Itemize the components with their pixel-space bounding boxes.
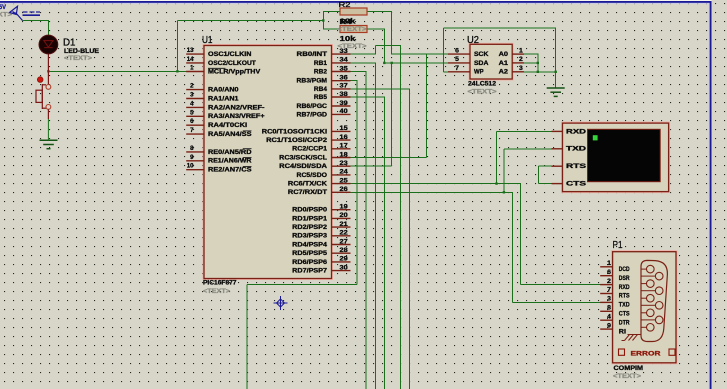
wire SCL bottom row to PIC RC3 pin18 <box>350 157 427 159</box>
wire terminal RXD riser x496 <box>496 131 498 183</box>
pin 17 RC2/CCP1 right <box>332 148 351 150</box>
svg-text:2: 2 <box>190 83 194 90</box>
svg-text:COMPIM: COMPIM <box>614 365 644 372</box>
junction R4-SDA <box>383 62 385 64</box>
svg-text:6: 6 <box>190 118 194 125</box>
svg-text:RI: RI <box>619 328 627 335</box>
svg-text:CTS: CTS <box>566 181 586 188</box>
P1 ERROR indicator right box <box>669 349 675 355</box>
P1 DB9 pin circle R1 <box>655 272 663 280</box>
pin 7 RA5/AN4/SS left <box>186 133 204 135</box>
pin 4 P1 DTR <box>600 319 612 321</box>
svg-text:RD1/PSP1: RD1/PSP1 <box>292 215 327 222</box>
pin 16 RC1/T1OSI/CCP2 right <box>332 139 351 141</box>
wire button to ground <box>47 109 49 119</box>
pin 9 RE1/AN6/WR left <box>186 160 204 162</box>
svg-text:4: 4 <box>607 313 611 320</box>
wire RB3 pin36 row <box>350 80 358 82</box>
svg-text:DCD: DCD <box>619 266 630 273</box>
wire PIC RX pin26 row y192 <box>350 191 513 193</box>
wire R4 right to drop x384 <box>367 28 385 30</box>
svg-text:RC7/RX/DT: RC7/RX/DT <box>288 189 327 196</box>
svg-text:38: 38 <box>340 91 349 98</box>
svg-text:OSC2/CLKOUT: OSC2/CLKOUT <box>208 60 256 67</box>
pin 30 RD7/PSP7 right <box>332 270 351 272</box>
wire R2 drop x391 to SCL row <box>391 12 393 55</box>
pin 6 P1 DSR <box>600 275 612 277</box>
svg-text:MCLR/Vpp/THV: MCLR/Vpp/THV <box>208 68 261 75</box>
wire TX drop x520 to COMPIM RXD <box>519 184 521 285</box>
svg-text:RD3/PSP3: RD3/PSP3 <box>292 233 327 240</box>
wire RB0 long vertical x400 to bottom <box>399 45 401 389</box>
wire +5V battery to LED top (node to x48) <box>23 20 49 22</box>
svg-text:RC6/TX/CK: RC6/TX/CK <box>288 181 328 188</box>
svg-text:A0: A0 <box>499 51 509 58</box>
pin 14 OSC2/CLKOUT left <box>186 62 204 64</box>
svg-text:18: 18 <box>340 151 349 158</box>
svg-text:8: 8 <box>190 145 194 152</box>
svg-text:17: 17 <box>340 143 349 150</box>
svg-text:<TEXT>: <TEXT> <box>64 55 92 62</box>
wire LED drop vertical x48 <box>47 21 49 36</box>
pin 28 RD5/PSP5 right <box>332 252 351 254</box>
wire U2 A0-A2 tie vertical x537 <box>537 54 539 72</box>
svg-text:29: 29 <box>340 256 349 263</box>
svg-text:39: 39 <box>340 100 349 107</box>
svg-text:R2: R2 <box>339 0 351 9</box>
svg-text:24LC512: 24LC512 <box>468 81 497 88</box>
button body <box>36 84 46 109</box>
pin 9 P1 RI <box>600 328 612 330</box>
wire RB1 long vertical x375 to bottom <box>374 63 376 389</box>
svg-text:RD7/PSP7: RD7/PSP7 <box>292 268 327 275</box>
wire COMPIM RXD row y284 <box>520 284 601 286</box>
svg-text:5: 5 <box>190 109 194 116</box>
pin 5 RA3/AN3/VREF+ left <box>186 115 204 117</box>
svg-text:CTS: CTS <box>619 311 630 318</box>
svg-text:RE0/AN5/RD: RE0/AN5/RD <box>208 149 252 156</box>
svg-text:ERROR: ERROR <box>631 350 662 357</box>
svg-text:8: 8 <box>607 305 611 312</box>
pin 34 RB1 right <box>332 62 351 64</box>
P1 DB9 pin circle R4 <box>655 316 663 324</box>
pin 2 U2 A1 <box>512 62 524 64</box>
svg-text:37: 37 <box>340 83 349 90</box>
svg-text:<TEXT>: <TEXT> <box>203 288 230 295</box>
svg-text:3: 3 <box>607 296 611 303</box>
svg-text:RD5/PSP5: RD5/PSP5 <box>292 250 327 257</box>
svg-text:OSC1/CLKIN: OSC1/CLKIN <box>208 51 252 58</box>
svg-text:3: 3 <box>190 92 194 99</box>
pin terminal TXD <box>552 148 563 150</box>
wire RB1 pin34 row <box>350 62 376 64</box>
svg-text:2: 2 <box>519 56 523 63</box>
svg-text:15: 15 <box>340 125 349 132</box>
pin 4 RA2/AN2/VREF- left <box>186 106 204 108</box>
pin 13 OSC1/CLKIN left <box>186 53 204 55</box>
pin 37 RB4 right <box>332 88 351 90</box>
pin 7 U2 WP <box>448 71 470 73</box>
wire U2 A1 row <box>523 62 538 64</box>
wire U2 A0 row <box>523 53 538 55</box>
svg-text:<TEXT>: <TEXT> <box>468 89 497 96</box>
wire RB4 long vertical x409 to bottom <box>409 89 411 389</box>
svg-text:A2: A2 <box>499 69 509 76</box>
svg-text:SDA: SDA <box>474 60 489 67</box>
svg-text:RB1: RB1 <box>314 60 328 67</box>
pin 19 RD0/PSP0 right <box>332 209 351 211</box>
svg-text:22: 22 <box>340 230 349 237</box>
pin 40 RB7/PGD right <box>332 113 351 115</box>
svg-text:RA2/AN2/VREF-: RA2/AN2/VREF- <box>208 104 265 111</box>
svg-text:RXD: RXD <box>566 128 587 135</box>
svg-text:4: 4 <box>190 100 194 107</box>
P1 DB9 pin circle L5 <box>647 324 655 332</box>
svg-text:35: 35 <box>340 65 349 72</box>
virtual terminal body <box>562 122 670 193</box>
junction LED-button-MCLR node <box>47 70 49 72</box>
connector P1 COMPIM body <box>612 251 677 364</box>
button terminal bottom <box>46 105 51 110</box>
P1 DB9 pin circle L3 <box>647 294 655 302</box>
wire SDA drop x391 <box>391 63 393 166</box>
wire terminal CTS row <box>538 183 552 185</box>
wire RB5 long vertical x384 to bottom <box>383 97 385 389</box>
wire pullup rail y20 from MCLR riser to resistor junction <box>177 20 323 22</box>
pin 10 RE2/AN7/CS left <box>186 169 204 171</box>
pin 27 RD4/PSP4 right <box>332 244 351 246</box>
svg-text:RB2: RB2 <box>314 68 328 75</box>
P1 chassis ground <box>622 335 642 341</box>
svg-text:RXD: RXD <box>619 284 630 291</box>
resistor R4 <box>340 26 367 33</box>
wire RB0 riser x375 <box>374 45 376 54</box>
svg-text:TXD: TXD <box>566 146 587 153</box>
svg-text:RC4/SDI/SDA: RC4/SDI/SDA <box>279 163 327 170</box>
button terminal top <box>46 85 51 90</box>
op-amp U1 PIC16F877 body <box>203 45 333 280</box>
svg-text:RA4/T0CKI: RA4/T0CKI <box>208 122 247 129</box>
P1 DB9 pin circle L4 <box>647 309 655 317</box>
svg-text:DSR: DSR <box>619 275 630 282</box>
svg-text:RC2/CCP1: RC2/CCP1 <box>292 146 327 153</box>
pin 6 RA4/T0CKI left <box>186 124 204 126</box>
pin 2 RA0/AN0 left <box>186 89 204 91</box>
svg-text:RA3/AN3/VREF+: RA3/AN3/VREF+ <box>208 113 265 120</box>
svg-text:U1: U1 <box>202 34 213 46</box>
svg-text:27: 27 <box>340 238 349 245</box>
svg-text:RA5/AN4/SS: RA5/AN4/SS <box>208 131 252 138</box>
P1 DB9 pin circle L2 <box>647 280 655 288</box>
wire R4 left stub <box>323 28 340 30</box>
svg-text:34: 34 <box>340 57 349 64</box>
svg-text:6: 6 <box>455 47 459 54</box>
svg-text:7: 7 <box>190 127 194 134</box>
junction TX terminal riser <box>495 182 497 184</box>
junction rail-resistors x323 <box>322 19 324 21</box>
pin terminal RXD <box>552 130 563 132</box>
wire SDA row y63 from R4 drop to U2 SDA <box>384 62 449 64</box>
pin 1 MCLR/Vpp/THV left <box>186 71 204 73</box>
pin 35 RB2 right <box>332 71 351 73</box>
svg-text:RTS: RTS <box>566 163 586 170</box>
svg-text:5: 5 <box>455 56 459 63</box>
svg-text:TXD: TXD <box>619 302 630 309</box>
wire resistor left vertical x323 <box>322 11 324 30</box>
pin 18 RC3/SCK/SCL right <box>332 157 351 159</box>
sheet border right <box>710 1 712 389</box>
button actuator red dot <box>37 77 43 83</box>
wire terminal RTS row <box>538 165 552 167</box>
svg-text:10k: 10k <box>340 34 357 43</box>
wire RB0 over-route y45 <box>375 44 401 46</box>
svg-text:WP: WP <box>474 69 484 76</box>
svg-text:RD2/PSP2: RD2/PSP2 <box>292 224 327 231</box>
pin 8 RE0/AN5/RD left <box>186 151 204 153</box>
wire RB3 vertical x357 <box>356 81 358 285</box>
wire R2 left stub <box>323 11 340 13</box>
svg-text:<TEXT>: <TEXT> <box>338 26 367 33</box>
junction MCLR riser <box>176 70 178 72</box>
wire U2 top rail y28 <box>444 27 557 29</box>
svg-text:10: 10 <box>187 163 194 170</box>
svg-text:LED-BLUE: LED-BLUE <box>64 48 99 55</box>
pin 39 RB6/PGC right <box>332 105 351 107</box>
pin 24 RC5/SDO right <box>332 174 351 176</box>
pin 2 P1 RXD <box>600 284 612 286</box>
svg-text:2: 2 <box>607 278 611 285</box>
pin 22 RD3/PSP3 right <box>332 235 351 237</box>
svg-text:1: 1 <box>607 260 611 267</box>
pin 1 U2 A0 <box>512 53 524 55</box>
pin terminal RTS <box>552 165 563 167</box>
svg-text:9: 9 <box>607 322 611 329</box>
svg-text:26: 26 <box>340 186 349 193</box>
wire RB2 pin35 row <box>350 71 367 73</box>
pin 21 RD2/PSP2 right <box>332 226 351 228</box>
svg-text:24: 24 <box>340 169 349 176</box>
svg-text:PIC16F877: PIC16F877 <box>203 280 237 287</box>
pin 20 RD1/PSP1 right <box>332 217 351 219</box>
pin 36 RB3/PGM right <box>332 80 351 82</box>
svg-text:RC5/SDO: RC5/SDO <box>297 172 328 179</box>
svg-text:+5V: +5V <box>0 4 6 11</box>
power terminal +5V battery top-left <box>10 6 41 20</box>
pin 5 U2 SDA <box>448 62 470 64</box>
svg-text:RB3/PGM: RB3/PGM <box>297 78 327 85</box>
P1 DB9 pin circle R3 <box>655 302 663 310</box>
sheet border top <box>0 0 712 1</box>
wire RB3 vertical x246 to bottom <box>246 284 248 389</box>
pin 15 RC0/T1OSO/T1CKI right <box>332 130 351 132</box>
wire riser x177 rail to MCLR row <box>176 21 178 72</box>
svg-text:<TEXT>: <TEXT> <box>0 12 12 19</box>
svg-text:1: 1 <box>190 65 194 72</box>
wire U2 WP row <box>444 71 449 73</box>
pin 3 RA1/AN1 left <box>186 98 204 100</box>
svg-text:36: 36 <box>340 75 349 82</box>
wire U2 A2 row to gnd rail <box>523 71 556 73</box>
wire PIC TX pin25 row y183 <box>350 183 521 185</box>
junction SDA drop <box>391 62 393 64</box>
wire RB2 long vertical x366 to bottom <box>365 72 367 389</box>
pin 8 P1 CTS <box>600 310 612 312</box>
wire terminal RTS-CTS loop vertical x538 <box>537 166 539 183</box>
wire COMPIM TXD row y302 <box>512 301 601 303</box>
svg-text:RA1/AN1: RA1/AN1 <box>208 95 239 102</box>
wire SCL drop x426 <box>426 54 428 157</box>
P1 DB9 pin circle R2 <box>655 287 663 295</box>
P1 DB9 pin circle L1 <box>647 265 655 273</box>
svg-text:RE1/AN6/WR: RE1/AN6/WR <box>208 158 252 165</box>
svg-text:23: 23 <box>340 160 349 167</box>
svg-text:28: 28 <box>340 247 349 254</box>
pin terminal CTS <box>552 183 563 185</box>
ground U2 address pins <box>547 88 565 96</box>
P1 ERROR indicator left box <box>619 349 625 355</box>
wire SDA bottom row to PIC RC4 pin23 <box>350 165 392 167</box>
wire MCLR row y71 from LED/button node to PIC pin1 <box>48 70 193 72</box>
svg-text:13: 13 <box>187 47 194 54</box>
P1 DB9 shell <box>641 260 667 341</box>
pin 26 RC7/RX/DT right <box>332 191 351 193</box>
pin 1 P1 DCD <box>600 266 612 268</box>
wire RB4 pin37 row <box>350 88 410 90</box>
virtual terminal cursor <box>593 135 598 140</box>
svg-text:20: 20 <box>340 212 349 219</box>
ground below button <box>40 140 58 148</box>
svg-text:DTR: DTR <box>619 319 630 326</box>
svg-text:14: 14 <box>187 56 194 63</box>
wire RX drop x512 to COMPIM TXD <box>511 192 513 302</box>
svg-text:U2: U2 <box>467 34 479 46</box>
svg-text:RD4/PSP4: RD4/PSP4 <box>292 241 327 248</box>
pin 3 U2 A2 <box>512 71 524 73</box>
svg-text:19: 19 <box>340 204 349 211</box>
pin 3 P1 TXD <box>600 301 612 303</box>
svg-text:6: 6 <box>607 269 611 276</box>
svg-text:RB7/PGD: RB7/PGD <box>297 111 328 118</box>
svg-text:RE2/AN7/CS: RE2/AN7/CS <box>208 167 252 174</box>
svg-text:<TEXT>: <TEXT> <box>613 373 641 380</box>
svg-text:RD0/PSP0: RD0/PSP0 <box>292 207 327 214</box>
svg-text:16: 16 <box>340 134 349 141</box>
svg-text:RB4: RB4 <box>314 86 328 93</box>
svg-text:7: 7 <box>607 287 611 294</box>
svg-text:RD6/PSP6: RD6/PSP6 <box>292 259 327 266</box>
wire U2 WP drop x443 <box>443 28 445 72</box>
svg-text:25: 25 <box>340 177 349 184</box>
svg-text:1: 1 <box>519 47 523 54</box>
svg-text:RB6/PGC: RB6/PGC <box>297 103 328 110</box>
wire U2 gnd vertical x555 <box>555 28 557 88</box>
pin 29 RD6/PSP6 right <box>332 261 351 263</box>
svg-text:D1: D1 <box>63 37 76 49</box>
svg-text:RB0/INT: RB0/INT <box>297 51 328 58</box>
svg-text:33: 33 <box>340 48 349 55</box>
junction A1 tie <box>537 62 539 64</box>
svg-text:RA0/AN0: RA0/AN0 <box>208 87 239 94</box>
svg-text:R4: R4 <box>340 17 353 26</box>
wire terminal TXD row <box>504 148 552 150</box>
svg-text:7: 7 <box>455 65 459 72</box>
wire R2 right to drop x391 <box>367 11 392 13</box>
wire terminal TXD riser x503 <box>503 149 505 193</box>
pin 38 RB5 right <box>332 96 351 98</box>
pin 25 RC6/TX/CK right <box>332 183 351 185</box>
IC U2 24LC512 body <box>469 43 513 80</box>
svg-text:9: 9 <box>190 154 194 161</box>
resistor R2 <box>340 8 367 15</box>
svg-text:RTS: RTS <box>619 293 630 300</box>
pin 6 U2 SCK <box>448 53 470 55</box>
wire RB0 pin33 row <box>350 53 376 55</box>
svg-text:21: 21 <box>340 221 349 228</box>
pin 23 RC4/SDI/SDA right <box>332 165 351 167</box>
svg-text:SCK: SCK <box>474 51 489 58</box>
wire terminal RXD row <box>497 130 553 132</box>
wire R4 drop x384 to SDA row <box>383 29 385 63</box>
LED D1 body <box>47 35 49 87</box>
origin marker <box>274 296 288 310</box>
wire SCL row y54 from drop to U2 SCK <box>392 53 449 55</box>
virtual terminal screen <box>588 129 661 181</box>
junction A2 gnd rail <box>537 71 539 73</box>
svg-text:30: 30 <box>340 264 349 271</box>
pin 33 RB0/INT right <box>332 53 351 55</box>
svg-text:RB5: RB5 <box>314 94 328 101</box>
svg-text:A1: A1 <box>499 60 509 67</box>
svg-text:P1: P1 <box>613 239 623 251</box>
wire RB5 pin38 row <box>350 96 385 98</box>
svg-text:3: 3 <box>519 65 523 72</box>
svg-text:RC1/T1OSI/CCP2: RC1/T1OSI/CCP2 <box>266 137 328 144</box>
junction RX terminal riser <box>503 191 505 193</box>
pin 7 P1 RTS <box>600 293 612 295</box>
svg-text:40: 40 <box>340 108 349 115</box>
svg-text:RC0/T1OSO/T1CKI: RC0/T1OSO/T1CKI <box>262 128 328 135</box>
svg-text:RC3/SCK/SCL: RC3/SCK/SCL <box>279 154 327 161</box>
wire RB3 horizontal y284 <box>247 283 357 285</box>
